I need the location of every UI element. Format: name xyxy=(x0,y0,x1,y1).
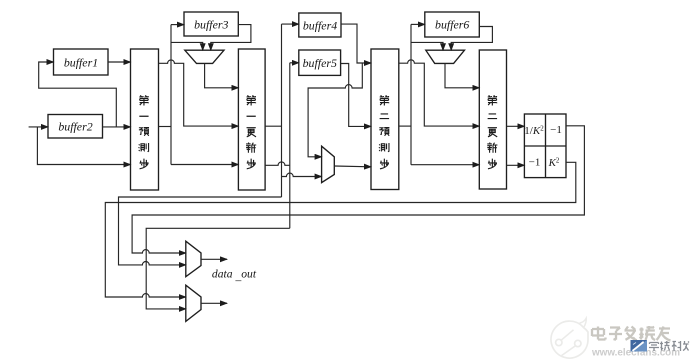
wire A2 to buffer6 in xyxy=(411,23,425,25)
wire bus1 C1 to mux M3 xyxy=(119,197,282,265)
wire mux M4 out xyxy=(201,302,227,304)
wire K bottom out bus2 to mux M4 xyxy=(105,162,576,297)
wire buffer2 out to P1 mid xyxy=(103,126,131,128)
wire U1 out1 to node C1 xyxy=(265,125,281,127)
svg-text:−1: −1 xyxy=(529,157,541,169)
wire K top out bus3 to mux M3 xyxy=(132,126,584,253)
mux M2 xyxy=(322,146,335,182)
wire A2 to mux T2 input xyxy=(411,42,443,50)
wire mux T2 out to U2 top xyxy=(445,63,479,87)
svg-text:data _out: data _out xyxy=(212,267,257,282)
label second-update text xyxy=(487,95,497,168)
wire A1 to U1 bottom xyxy=(171,164,238,166)
svg-text:buffer3: buffer3 xyxy=(194,17,228,31)
svg-text:buffer6: buffer6 xyxy=(435,18,469,32)
wire node A1 vertical xyxy=(170,25,172,165)
wire P1 top out hop down to U1 mid xyxy=(159,60,239,126)
wire node D1 vertical xyxy=(289,63,291,229)
wire buffer6 out to mux T2 xyxy=(451,27,492,51)
svg-text:−1: −1 xyxy=(550,124,562,136)
mux T1 xyxy=(185,50,224,63)
svg-text:buffer5: buffer5 xyxy=(303,56,337,70)
wire P1 mid out to node A1 xyxy=(159,126,172,128)
wire C1 to mux M2 lower input xyxy=(282,173,322,176)
watermark badge xyxy=(631,340,648,352)
svg-text:buffer2: buffer2 xyxy=(58,120,92,134)
wire mux M2 out to P2 bottom xyxy=(334,165,371,168)
wire A1 to mux T1 input xyxy=(171,42,203,50)
wire loop to buffer1 in xyxy=(39,62,117,127)
wire buffer5 out to P2 mid xyxy=(341,64,371,127)
mux M3 xyxy=(186,241,201,277)
wire U2 out1 to K top xyxy=(507,125,525,127)
buffer3 xyxy=(184,12,238,36)
buffer2 xyxy=(48,115,103,139)
block second-predict P2 xyxy=(371,49,399,190)
wire junction to mux M2 upper input xyxy=(308,63,362,157)
mux M4 xyxy=(186,285,201,321)
buffer1 xyxy=(54,49,109,75)
wire A2 to U2 bottom xyxy=(411,164,479,166)
block second-update U2 xyxy=(479,50,506,189)
wire mux M3 data_out xyxy=(201,258,227,260)
wire input to buffer2 xyxy=(29,126,48,128)
svg-text:buffer1: buffer1 xyxy=(64,55,98,69)
wire C1 to buffer4 in xyxy=(282,23,299,25)
wire mux T1 out to U1 top xyxy=(205,63,239,87)
block first-predict P1 xyxy=(131,49,159,190)
wire P2 mid out to node A2 xyxy=(399,125,411,127)
wire input branch to P1 bottom xyxy=(37,127,130,165)
wire buffer1 out to P1 top xyxy=(108,61,131,63)
label second-predict text xyxy=(379,95,389,168)
watermark partner text xyxy=(649,341,689,351)
watermark brand text xyxy=(592,326,671,341)
watermark logo circle xyxy=(551,318,588,358)
label first-predict text xyxy=(139,95,149,168)
svg-text:buffer4: buffer4 xyxy=(303,18,337,32)
scaling block K xyxy=(524,114,566,178)
wire D1 to buffer5 in xyxy=(290,62,299,64)
wire U2 out2 to K bottom xyxy=(507,164,525,166)
wire U1 out2 hop to node D1 xyxy=(265,162,290,165)
buffer6 xyxy=(425,12,480,37)
wire node C1 vertical xyxy=(281,24,283,197)
wire bus4 D1 to mux M4 xyxy=(146,228,290,309)
wire node A2 vertical xyxy=(410,24,412,164)
mux T2 xyxy=(426,50,465,63)
label first-update text xyxy=(246,95,256,168)
wire A1 to buffer3 in xyxy=(171,24,184,26)
wire P2 top out hop down to U2 mid xyxy=(399,60,480,126)
wire buffer3 out to mux T1 xyxy=(211,25,251,51)
wire buffer4 out to P2 top xyxy=(341,24,371,63)
block first-update U1 xyxy=(238,49,265,190)
buffer4 xyxy=(299,13,341,37)
buffer5 xyxy=(299,50,341,75)
